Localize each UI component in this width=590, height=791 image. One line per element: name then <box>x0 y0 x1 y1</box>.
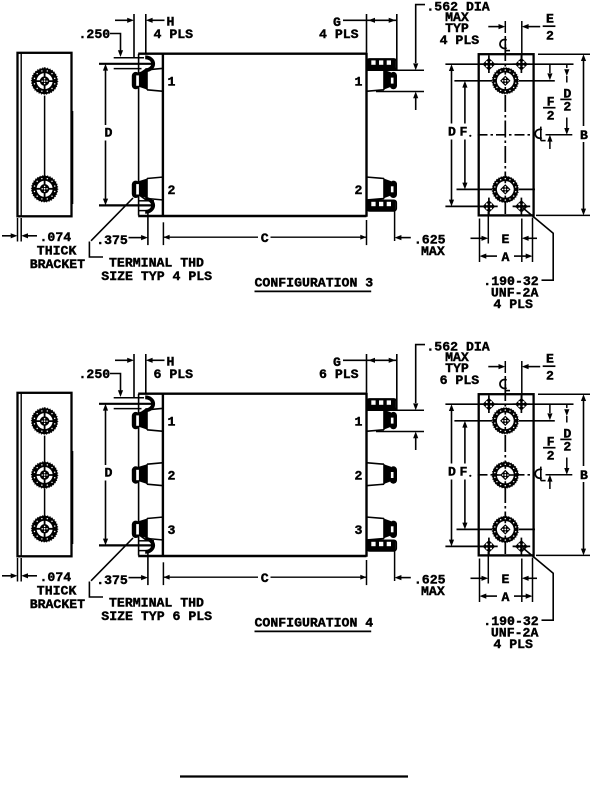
terminal circle inner diamond <box>497 181 514 198</box>
mounting hole row bottom extension line <box>445 545 492 547</box>
svg-text:2: 2 <box>168 183 176 198</box>
terminal circle cross ticks <box>504 412 506 415</box>
bottom divider line <box>180 775 408 777</box>
terminal diameter extension lines <box>367 69 424 71</box>
terminal circle knurled ring <box>495 410 516 431</box>
mounting screw leader line <box>523 208 553 280</box>
terminal cone <box>384 410 391 430</box>
terminal circle inner diamond <box>497 521 514 538</box>
dimension E arrows <box>471 577 483 579</box>
mounting hole rosette <box>484 400 493 409</box>
mounting hole cross arms <box>488 538 490 556</box>
svg-text:F: F <box>460 125 468 140</box>
dimension E/2 arrows <box>488 366 499 368</box>
bracket tab hook arc <box>145 57 153 70</box>
mounting hole row top extension line <box>445 403 573 405</box>
dimension E A risers <box>479 559 481 603</box>
mounting screw leader line <box>523 548 553 620</box>
bracket screw head 1 knurled ring <box>34 411 55 432</box>
dimension .625 arrow and label <box>395 575 402 580</box>
bracket screw head 3 cross <box>44 515 46 525</box>
dimension E A risers <box>479 219 481 263</box>
center line symbol top <box>500 40 507 49</box>
terminal base outline <box>147 463 164 486</box>
end view vertical center line <box>504 44 506 214</box>
dimension A arrows <box>480 594 487 599</box>
terminal diameter extension lines <box>367 409 424 411</box>
bracket flange line left <box>138 54 140 216</box>
dimension F end view <box>462 421 467 428</box>
mounting hole rosette <box>484 60 493 69</box>
svg-text:C: C <box>261 231 269 246</box>
dimension C line <box>163 576 258 578</box>
svg-text:C: C <box>261 571 269 586</box>
CONFIGURATION 4 drawing <box>2 340 590 652</box>
terminal circle center boss <box>500 416 510 426</box>
bracket screw head 1 knurled ring <box>34 71 55 92</box>
center line symbol top <box>500 380 507 389</box>
terminal base outline <box>147 517 164 540</box>
threaded stud <box>367 200 396 211</box>
bracket screw head 2 cross <box>44 175 46 185</box>
terminal cone <box>139 519 147 539</box>
terminal tip slot <box>136 524 139 534</box>
terminal tip slot <box>136 470 139 480</box>
left mounting bracket side view - outline <box>18 53 72 217</box>
svg-text:1: 1 <box>168 414 176 429</box>
svg-text:BRACKET: BRACKET <box>30 597 85 612</box>
dimension G line and arrows <box>343 19 397 21</box>
svg-text:SIZE TYP 6 PLS: SIZE TYP 6 PLS <box>101 609 212 624</box>
mounting hole row bottom extension line <box>445 205 492 207</box>
svg-text:2: 2 <box>546 369 554 384</box>
threaded stud <box>367 59 396 70</box>
dimension .375 extension line <box>147 551 149 585</box>
mounting hole cross arms <box>520 395 522 413</box>
svg-text:D: D <box>448 125 456 140</box>
terminal circle center boss <box>500 524 510 534</box>
diagonal from top hook to terminal 1 <box>134 69 147 78</box>
dimension .074 extension lines <box>17 218 19 242</box>
dimension H arrows <box>115 359 128 361</box>
svg-text:F: F <box>460 465 468 480</box>
terminal circle center boss <box>500 76 510 86</box>
mounting hole cross arms <box>488 198 490 216</box>
bracket screw head 1 cross <box>44 67 46 77</box>
terminal cone <box>384 179 391 199</box>
svg-text:2: 2 <box>546 29 554 44</box>
svg-text:E: E <box>502 572 510 587</box>
svg-text:1: 1 <box>355 74 363 89</box>
terminal circle center boss <box>500 184 510 194</box>
terminal tip slot <box>391 472 394 478</box>
svg-text:6 PLS: 6 PLS <box>440 373 480 388</box>
svg-text:BRACKET: BRACKET <box>30 257 85 272</box>
terminal cone <box>384 519 391 539</box>
bracket tab hook arc <box>145 397 153 410</box>
terminal tip slot <box>136 75 139 85</box>
terminal circle row lines <box>454 420 492 422</box>
left bracket right edge line <box>72 451 74 544</box>
dimension H arrows <box>115 19 128 21</box>
dimension E/2 arrows <box>488 26 499 28</box>
CONFIGURATION 3 drawing <box>2 0 590 312</box>
bottom-left stud rod lines <box>138 200 154 202</box>
middle terminal circle horizontal arms <box>497 474 501 476</box>
dimension .625 arrow and label <box>395 235 402 240</box>
mounting hole rosette <box>484 202 493 211</box>
terminal tip cap <box>132 521 140 538</box>
dimension B extension lines <box>538 53 590 55</box>
mounting hole cross arms <box>488 55 490 73</box>
terminal tip slot <box>136 184 139 194</box>
svg-text:MAX: MAX <box>421 244 445 259</box>
svg-text:CONFIGURATION 3: CONFIGURATION 3 <box>255 275 374 290</box>
left bracket inner bend line <box>20 394 22 556</box>
svg-text:E: E <box>546 352 554 367</box>
svg-text:E: E <box>502 232 510 247</box>
dimension .625 extension line <box>394 551 396 581</box>
terminal cone <box>384 464 391 484</box>
terminal base outline <box>147 68 164 91</box>
dimension C line <box>163 236 258 238</box>
terminal circle knurled ring <box>495 179 516 200</box>
end view vertical center line <box>504 384 506 554</box>
svg-text:1: 1 <box>168 74 176 89</box>
terminal base outline <box>147 177 164 200</box>
dimension G line and arrows <box>343 359 397 361</box>
svg-text:.074: .074 <box>40 230 72 245</box>
horizontal center line dash <box>478 134 534 136</box>
terminal circle cross ticks <box>504 520 506 523</box>
main body bottom edge <box>138 215 366 217</box>
dimension E/2 risers <box>504 361 506 373</box>
center line solid right <box>546 474 573 476</box>
dimension A arrows <box>480 254 487 259</box>
svg-text:.250: .250 <box>79 27 111 42</box>
terminal tip cap <box>132 181 140 198</box>
terminal cone <box>139 410 147 430</box>
terminal tip cap <box>390 466 397 483</box>
terminal diameter lower arrow <box>413 432 418 439</box>
svg-text:2: 2 <box>547 448 555 463</box>
main body right edge <box>365 53 367 217</box>
svg-text:CONFIGURATION 4: CONFIGURATION 4 <box>255 615 374 630</box>
dimension D end view <box>449 404 454 411</box>
terminal tip slot <box>136 415 139 425</box>
dimension G extension lines <box>366 14 368 53</box>
terminal cone <box>139 464 147 484</box>
diagonal from bottom hook to terminal <box>136 192 148 200</box>
dimension H extension lines <box>133 354 135 397</box>
dimension E arrows <box>471 237 483 239</box>
terminal thread leader line <box>91 198 133 241</box>
terminal base outline <box>366 177 384 200</box>
terminal base outline <box>147 408 164 431</box>
terminal circle cross ticks <box>504 180 506 183</box>
terminal circle cross ticks <box>504 72 506 75</box>
horizontal center line dash <box>478 474 534 476</box>
svg-text:4 PLS: 4 PLS <box>440 33 480 48</box>
dimension F/2 arrows <box>549 64 551 73</box>
dimension .074 extension lines <box>17 558 19 582</box>
bottom-right hole horizontal arm <box>515 205 528 207</box>
bracket screw head 1 cross <box>44 407 46 417</box>
mounting hole cross arms <box>488 395 490 413</box>
bracket center line between screws <box>44 436 46 464</box>
svg-text:B: B <box>580 468 588 483</box>
mounting hole row top extension line <box>445 63 573 65</box>
main body bottom edge <box>138 555 366 557</box>
dimension .375 extension line <box>147 211 149 245</box>
dimension F end view <box>462 81 467 88</box>
svg-text:1: 1 <box>355 414 363 429</box>
terminal tip cap <box>390 72 397 89</box>
svg-text:A: A <box>502 590 510 605</box>
terminal base outline <box>366 68 384 91</box>
dimension D/2 arrows <box>566 64 568 68</box>
svg-text:2: 2 <box>168 469 176 484</box>
main body left edge <box>162 53 164 217</box>
bracket screw head 2 center boss <box>40 184 49 193</box>
dimension D/2 arrows <box>566 404 568 408</box>
svg-text:.250: .250 <box>79 367 111 382</box>
svg-text:4 PLS: 4 PLS <box>154 27 194 42</box>
svg-text:2: 2 <box>563 440 571 455</box>
left bracket inner bend line <box>20 54 22 216</box>
bracket screw head 1 center boss <box>40 416 49 425</box>
terminal tip slot <box>391 186 394 192</box>
dimension B extension lines <box>538 393 590 395</box>
terminal base outline <box>366 463 384 486</box>
bottom-right hole horizontal arm <box>515 545 528 547</box>
terminal cone <box>139 70 147 90</box>
dimension H extension lines <box>133 14 135 57</box>
bracket screw head 3 knurled ring <box>34 518 55 539</box>
svg-text:2: 2 <box>547 108 555 123</box>
bracket screw head 2 knurled ring <box>34 465 55 486</box>
center line symbol middle <box>535 469 542 478</box>
svg-text:E: E <box>546 12 554 27</box>
svg-text:A: A <box>502 250 510 265</box>
bracket screw head 2 center boss <box>40 470 49 479</box>
svg-text:4 PLS: 4 PLS <box>493 297 533 312</box>
bracket screw head 1 center boss <box>40 76 49 85</box>
dimension B line <box>581 54 586 61</box>
dimension B line <box>581 394 586 401</box>
threaded stud <box>367 540 396 551</box>
terminal cone <box>139 179 147 199</box>
center line symbol middle <box>535 129 542 138</box>
svg-text:3: 3 <box>168 523 176 538</box>
svg-text:MAX: MAX <box>421 584 445 599</box>
terminal circle knurled ring <box>495 464 516 485</box>
bracket screw head 2 cross <box>44 461 46 471</box>
mounting hole cross arms <box>520 55 522 73</box>
diagonal from top hook to terminal 1 <box>134 409 147 418</box>
dimension C extension lines <box>162 562 164 585</box>
terminal tip cap <box>390 412 397 429</box>
terminal tip slot <box>391 526 394 532</box>
terminal tip cap <box>390 181 397 198</box>
terminal circle knurled ring <box>495 70 516 91</box>
diagonal from bottom hook to terminal <box>136 532 148 540</box>
mounting hole rosette <box>517 202 526 211</box>
center line solid right <box>546 134 573 136</box>
bracket tab hook arc <box>145 199 153 212</box>
svg-text:D: D <box>448 465 456 480</box>
main body left edge <box>162 393 164 557</box>
terminal circle center boss <box>500 470 510 480</box>
terminal tip cap <box>132 412 140 429</box>
dimension .074 arrows <box>2 235 12 237</box>
svg-text:.375: .375 <box>96 233 128 248</box>
end view plate outline <box>479 54 534 215</box>
terminal tip slot <box>391 418 394 424</box>
svg-text:B: B <box>580 128 588 143</box>
main body top edge <box>138 393 366 395</box>
terminal thread leader line <box>91 538 133 581</box>
top-left stud rod lines <box>114 57 144 59</box>
bracket screw head 2 knurled ring <box>34 178 55 199</box>
svg-text:D: D <box>105 465 113 480</box>
dimension D line <box>105 77 107 126</box>
dimension D top arrow <box>103 404 108 411</box>
left bracket right edge line <box>72 111 74 204</box>
threaded stud <box>367 399 396 410</box>
dimension G extension lines <box>366 354 368 393</box>
terminal base outline <box>366 517 384 540</box>
svg-text:.074: .074 <box>40 570 72 585</box>
dimension .562 leader line <box>416 5 425 63</box>
svg-text:3: 3 <box>355 523 363 538</box>
dimension .625 extension line <box>394 211 396 241</box>
svg-text:SIZE TYP 4 PLS: SIZE TYP 4 PLS <box>101 269 212 284</box>
end view plate outline <box>479 394 534 555</box>
mounting hole rosette <box>517 60 526 69</box>
terminal circle inner diamond <box>497 72 514 89</box>
dimension D top arrow <box>103 64 108 71</box>
mounting hole rosette <box>484 542 493 551</box>
terminal base outline <box>366 408 384 431</box>
bracket tab hook arc <box>145 539 153 552</box>
svg-text:6 PLS: 6 PLS <box>319 367 359 382</box>
bracket screw head 3 center boss <box>40 524 49 533</box>
terminal circle inner diamond <box>497 467 514 484</box>
terminal tip cap <box>390 521 397 538</box>
terminal tip cap <box>132 72 140 89</box>
dimension D end view <box>449 64 454 71</box>
svg-text:2: 2 <box>355 469 363 484</box>
svg-text:4 PLS: 4 PLS <box>493 637 533 652</box>
terminal tip slot <box>391 78 394 84</box>
terminal tip cap <box>132 466 140 483</box>
dimension F/2 arrows <box>549 404 551 413</box>
mounting hole rosette <box>517 400 526 409</box>
dimension C extension lines <box>162 222 164 245</box>
dimension D line <box>105 417 107 466</box>
svg-text:6 PLS: 6 PLS <box>154 367 194 382</box>
bracket flange line left <box>138 394 140 556</box>
mounting hole rosette <box>517 542 526 551</box>
bottom-left stud rod lines <box>138 540 154 542</box>
terminal circle inner diamond <box>497 412 514 429</box>
dimension .074 arrows <box>2 575 12 577</box>
left mounting bracket side view - outline <box>18 393 72 557</box>
mounting hole cross arms <box>520 198 522 216</box>
svg-text:D: D <box>105 125 113 140</box>
svg-text:2: 2 <box>355 183 363 198</box>
terminal circle cross ticks <box>504 466 506 469</box>
terminal circle row lines <box>454 80 492 82</box>
dimension E/2 risers <box>504 21 506 33</box>
svg-text:.375: .375 <box>96 573 128 588</box>
main body right edge <box>365 393 367 557</box>
svg-text:2: 2 <box>563 100 571 115</box>
main body top edge <box>138 53 366 55</box>
terminal cone <box>384 70 391 90</box>
terminal circle knurled ring <box>495 519 516 540</box>
top-left stud rod lines <box>114 397 144 399</box>
svg-text:4 PLS: 4 PLS <box>319 27 359 42</box>
mounting hole cross arms <box>520 538 522 556</box>
dimension .562 leader line <box>416 345 425 403</box>
bracket center line between screws <box>44 96 46 178</box>
terminal diameter lower arrow <box>413 92 418 99</box>
